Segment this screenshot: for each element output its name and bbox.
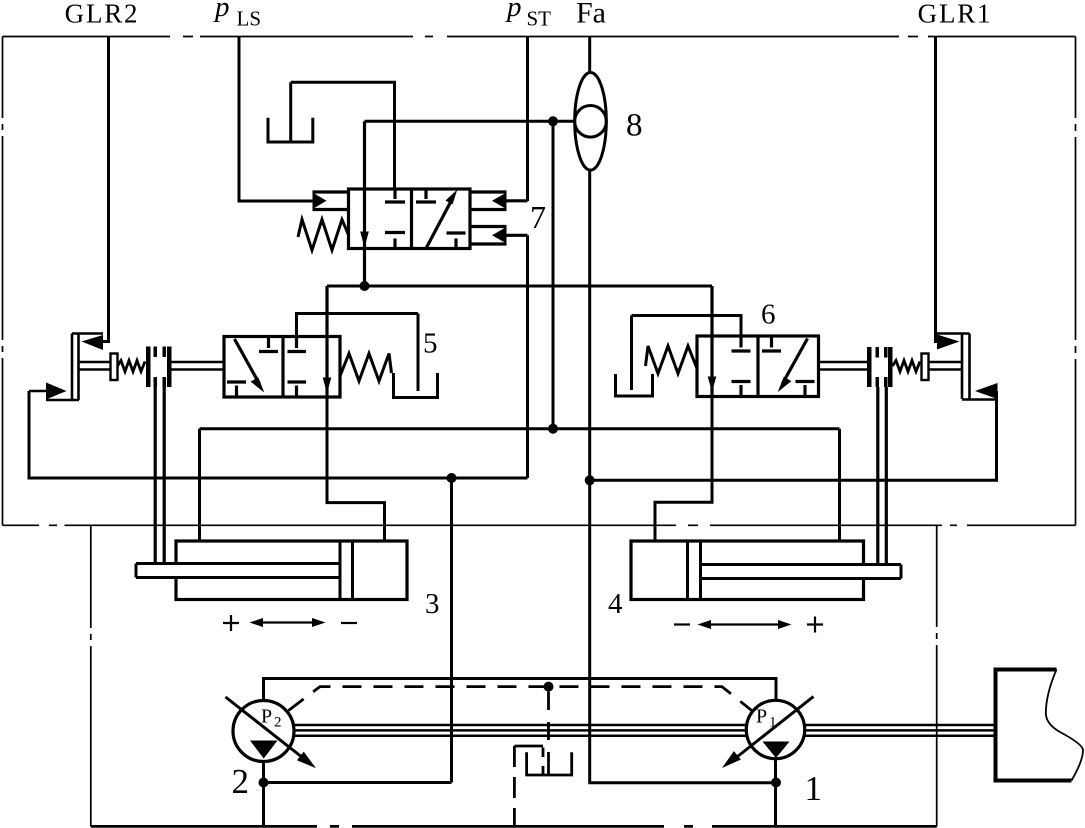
svg-text:Fa: Fa [576,0,606,30]
svg-text:3: 3 [425,588,440,620]
svg-text:P: P [261,706,272,728]
svg-text:GLR1: GLR1 [918,0,993,29]
svg-text:5: 5 [423,328,438,360]
svg-text:P: P [756,706,767,728]
svg-text:ST: ST [527,7,552,31]
svg-text:LS: LS [237,7,262,31]
svg-text:6: 6 [761,299,776,331]
svg-text:4: 4 [608,588,623,620]
svg-text:7: 7 [530,199,546,235]
svg-text:GLR2: GLR2 [65,0,140,29]
svg-text:2: 2 [232,762,250,801]
svg-text:p: p [505,0,522,23]
svg-text:p: p [213,0,230,23]
svg-text:8: 8 [626,108,643,144]
svg-text:1: 1 [805,769,823,808]
svg-text:2: 2 [274,715,282,731]
